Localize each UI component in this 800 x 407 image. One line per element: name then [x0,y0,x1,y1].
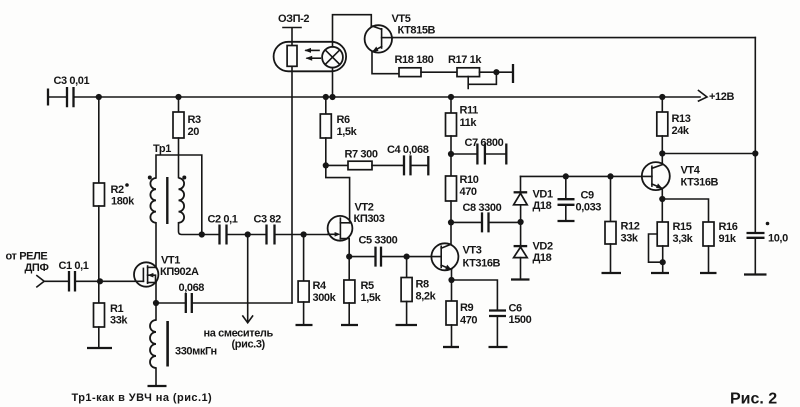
svg-text:R17 1k: R17 1k [448,54,482,66]
capacitor C9 0,033 [565,176,567,199]
input terminal chevron [37,276,44,287]
svg-text:R7 300: R7 300 [345,149,378,161]
svg-text:330мкГн: 330мкГн [175,346,217,358]
ground R1 [87,347,112,349]
ground inductor [148,385,167,387]
svg-text:0,033: 0,033 [576,202,602,214]
capacitor C6 1500 [452,280,498,311]
node C1-R1-R2 [97,278,103,284]
phase dot left [148,176,152,180]
node VT2 source [346,254,352,260]
wire +12V rail [74,96,700,98]
svg-text:470: 470 [460,315,477,327]
resistor R8 [406,257,408,278]
svg-text:VT2: VT2 [355,202,374,214]
svg-text:ДПФ: ДПФ [25,262,49,274]
svg-text:КП303: КП303 [354,213,385,225]
light arrow 2 [307,57,320,59]
svg-text:КП902А: КП902А [160,266,199,278]
light arrow 1 [306,49,319,51]
resistor R3 [178,97,180,112]
transistor VT1 [134,262,158,286]
inductor 330uH [155,303,157,320]
R15 wiper [649,234,663,262]
wire to VT3 base [407,256,442,258]
svg-text:ОЗП-2: ОЗП-2 [278,13,309,25]
svg-text:R16: R16 [719,221,738,233]
svg-text:КТ316В: КТ316В [681,177,719,189]
transformer Tr1 core [166,177,168,224]
wire photoresistor down to 0,068 node [291,66,293,303]
node rail-R13 [659,94,665,100]
node VT4 emitter [659,196,665,202]
photoresistor element [287,46,297,67]
svg-text:Тр1-как в УВЧ на (рис.1): Тр1-как в УВЧ на (рис.1) [72,392,213,404]
wire VT1 source down [155,283,157,304]
svg-text:R11: R11 [460,105,479,117]
wire R18 to R17 [421,71,457,73]
node R10-C8-VT3 [448,219,454,225]
svg-text:C2 0,1: C2 0,1 [208,214,238,226]
svg-text:300k: 300k [313,292,337,304]
svg-text:C3 82: C3 82 [254,214,282,226]
svg-text:VT5: VT5 [392,13,411,25]
node R6-R7-VT2 [323,162,329,168]
node R11-C7-R10 [448,151,454,157]
wire VT5 collector to right edge [393,37,756,39]
svg-text:180k: 180k [111,196,135,208]
svg-text:VT1: VT1 [161,255,180,267]
resistor R12 [610,176,612,221]
wire Tr1 left bottom to VT1 drain [155,223,157,268]
transformer Tr1 secondary winding [179,178,185,223]
node rail-R3 [175,94,181,100]
svg-text:R15: R15 [673,221,692,233]
svg-text:1500: 1500 [509,314,532,326]
svg-text:КТ316В: КТ316В [463,258,501,270]
capacitor C2 0,1 [220,225,227,245]
node mixer tap [245,231,251,237]
svg-text:C5 3300: C5 3300 [359,235,398,247]
svg-text:0,068: 0,068 [179,282,205,294]
wire Tr1 left top to output drop [156,155,202,235]
capacitor C7 6800 [451,153,477,155]
capacitor 10,0 [747,233,765,238]
svg-text:470: 470 [460,186,477,198]
resistor R4 [303,235,305,282]
node Tr1 output [199,231,205,237]
node R13-VT4 collector [659,150,665,156]
svg-text:Д18: Д18 [533,252,552,264]
svg-text:C6: C6 [509,303,523,315]
ground R12 [602,272,622,274]
terminal bar C7 [505,144,507,165]
svg-text:33k: 33k [110,315,128,327]
svg-text:R8: R8 [416,279,430,291]
svg-text:11k: 11k [460,117,478,129]
ground R9 [443,346,459,348]
resistor R16 [662,199,708,222]
resistor R11 [450,97,452,113]
wire lamp top to VT5 base [333,15,372,47]
node R4 tap [301,231,307,237]
svg-text:Рис. 2: Рис. 2 [730,391,777,407]
ground C9 [558,220,575,222]
svg-text:C8 3300: C8 3300 [463,202,502,214]
phase dot right [182,176,186,180]
transistor VT5 [365,25,392,52]
terminal bar C4 [427,156,429,175]
wire R13 node to right edge [662,153,755,155]
svg-text:от РЕЛЕ: от РЕЛЕ [6,251,48,263]
svg-text:R3: R3 [188,114,202,126]
wire VD1 to VT4 base [521,175,652,177]
capacitor 0,068 (VT1 source) [156,302,186,304]
svg-text:R6: R6 [337,114,351,126]
svg-text:91k: 91k [719,233,737,245]
transistor VT2 [328,216,353,241]
svg-text:24k: 24k [672,125,690,137]
wire R17 to terminal [480,71,514,73]
diode VD2 [520,222,522,246]
svg-text:1,5k: 1,5k [361,292,382,304]
svg-text:(рис.3): (рис.3) [232,339,266,351]
wire output line [202,234,328,236]
node rail-R6 [323,94,329,100]
ground R8 [396,324,418,326]
capacitor C1 0,1 [44,280,69,282]
+12V arrow [699,91,708,102]
resistor R13 [661,97,663,112]
svg-text:VD1: VD1 [533,189,553,201]
svg-text:КТ815В: КТ815В [398,25,436,37]
node rail-R11 [448,94,454,100]
wire lamp bottom to rail [332,68,334,97]
diode VD1 [520,205,522,222]
svg-text:C3 0,01: C3 0,01 [54,75,90,87]
svg-text:C9: C9 [581,190,595,202]
svg-text:1,5k: 1,5k [337,126,358,138]
wire Tr1 right bottom to output line [179,223,202,235]
svg-text:R1: R1 [110,303,124,315]
terminal bar R17 [512,64,514,83]
svg-text:R5: R5 [361,280,375,292]
svg-text:R4: R4 [313,280,328,292]
ground C6 [489,346,508,348]
photoresistor leader wire [291,29,293,46]
node rail-R2 [96,94,102,100]
resistor R6 [325,97,327,114]
wire node to VT2 drain [326,165,350,222]
transistor VT4 [642,162,670,190]
node VT3 emitter [448,277,454,283]
node rail-lamp [329,94,335,100]
node VT1 source [153,300,159,306]
svg-text:10,0: 10,0 [768,233,788,245]
R17 wiper [468,72,496,88]
capacitor C8 3300 [451,221,482,223]
wire right edge down to 10,0 cap [754,38,756,233]
ground R15 [651,272,669,274]
svg-text:C1 0,1: C1 0,1 [59,260,89,272]
ground VD2 [511,278,530,280]
svg-text:VT4: VT4 [681,165,701,177]
transformer Tr1 primary winding [150,178,156,223]
svg-text:VT3: VT3 [463,245,482,257]
node C5-R8-VT3 [404,254,410,260]
lamp [322,47,343,68]
svg-text:Тр1: Тр1 [153,143,171,155]
svg-text:+12В: +12В [709,91,734,103]
ground 10,0 [744,273,767,275]
ground R5 [341,324,358,326]
svg-text:R9: R9 [460,302,474,314]
resistor R9 [451,280,453,301]
svg-text:R2: R2 [111,184,125,196]
node R17 wiper junction [493,69,499,75]
svg-text:VD2: VD2 [533,241,553,253]
resistor R10 [450,154,452,176]
svg-text:C7 6800: C7 6800 [465,137,504,149]
node R15 wiper junction [660,259,666,265]
svg-text:Д18: Д18 [533,200,552,212]
resistor R1 [98,281,100,303]
wire VT5 emitter to R18 [372,52,399,74]
transistor VT3 [431,243,458,270]
resistor R17 (preset) [457,68,480,77]
node C9 tap [563,173,569,179]
optocoupler OZP-2 body [274,42,347,72]
resistor R7 [326,164,348,166]
svg-text:R18 180: R18 180 [395,54,434,66]
wire to mixer with arrow [247,235,249,322]
svg-text:20: 20 [188,126,200,138]
svg-text:R10: R10 [460,174,479,186]
node R12 tap [607,173,613,179]
resistor R15 (preset) [661,199,663,222]
svg-text:R12: R12 [621,221,640,233]
capacitor C5 3300 [349,256,375,258]
capacitor C4 0,068 [372,164,404,166]
ground R16 [700,272,717,274]
capacitor C3 82 [267,225,275,245]
svg-text:3,3k: 3,3k [673,233,694,245]
svg-text:33k: 33k [621,233,639,245]
ground R4 [296,324,313,326]
resistor R2 [98,97,100,183]
resistor R5 [348,257,350,280]
node right edge [752,150,758,156]
svg-text:R13: R13 [672,113,691,125]
svg-text:C4 0,068: C4 0,068 [387,144,429,156]
capacitor C3 0,01 [48,96,67,98]
node C8-VD1-VD2 [518,219,524,225]
svg-text:8,2k: 8,2k [416,291,437,303]
resistor R18 [399,68,421,77]
wire input to VT1 gate [75,280,143,282]
